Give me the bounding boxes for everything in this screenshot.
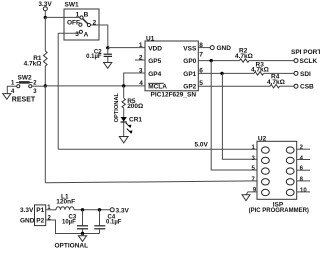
node 3.3V out terminal [110,208,114,212]
node 3.3V terminal [43,7,47,11]
svg-text:200Ω: 200Ω [127,103,143,110]
wire 3.3V stem [44,11,46,18]
wire pin6 down to U2 pin3 [222,73,257,159]
svg-text:120nF: 120nF [56,199,75,206]
svg-text:4.7kΩ: 4.7kΩ [235,53,253,60]
node dot C3 top [81,208,84,211]
capacitor C3 [62,210,88,234]
svg-text:P1: P1 [36,207,44,214]
svg-text:OPTIONAL: OPTIONAL [114,92,120,122]
svg-text:CSB: CSB [300,84,314,91]
svg-text:PIC12F629_SN: PIC12F629_SN [151,92,197,99]
switch SW2 [11,75,37,95]
wire P1 pin1 to L1 [46,209,56,211]
svg-text:SDI: SDI [300,71,311,78]
svg-text:5.0V: 5.0V [195,141,209,148]
connector P1/P2 [20,205,52,226]
svg-text:8: 8 [199,42,203,49]
wire U1 pin2 stub [135,59,145,61]
wire U2 pin7 line [45,181,257,183]
ground RESET [3,94,11,100]
svg-text:0.1µF: 0.1µF [86,54,102,60]
svg-text:SW1: SW1 [65,2,79,9]
svg-text:P2: P2 [36,217,44,224]
svg-text:VSS: VSS [183,45,197,52]
wire U1 pin5 to CSB [198,85,270,87]
svg-text:SPI PORT: SPI PORT [291,49,320,56]
svg-text:1: 1 [139,42,143,49]
svg-text:MCLA: MCLA [148,84,167,91]
node SCLK terminal [294,59,298,63]
resistor R4 [267,73,285,88]
header U2 [249,135,309,214]
svg-text:4: 4 [139,80,143,87]
wire x45 down to U2 pin7 line [44,86,46,183]
switch SW1 [64,2,99,40]
ground bottom rail [82,234,84,236]
wire U1 pin6 to SDI [198,72,254,74]
svg-text:RESET: RESET [12,97,36,104]
node SDI terminal [294,71,298,75]
svg-text:VDD: VDD [148,45,162,52]
svg-text:7: 7 [199,51,203,58]
node junction dot pin6 [220,72,223,75]
svg-text:3.3V: 3.3V [116,207,130,214]
svg-text:A: A [84,32,89,39]
node CSB terminal [294,84,298,88]
node GND terminal [210,46,214,50]
svg-text:GP1: GP1 [183,71,196,78]
resistor R2 [235,47,253,62]
svg-text:4.7kΩ: 4.7kΩ [24,60,42,67]
svg-text:10: 10 [300,188,307,194]
svg-text:(PIC PROGRAMMER): (PIC PROGRAMMER) [249,208,309,214]
node junction dot 3.3V [44,16,47,19]
svg-text:3: 3 [75,31,79,38]
svg-text:2: 2 [93,20,97,27]
wire SW2 to MCLR line [32,85,45,87]
wire L1 to 3.3V out [74,209,110,211]
capacitor C4 [94,210,121,234]
LED CR1 [121,117,143,137]
wire to U1 VDD pin1 [108,47,145,49]
wire SW1 pin3 to left [58,32,79,34]
ground U2 pin9 [242,195,250,201]
node dot bottom rail [81,232,84,235]
wire U2 right stubs [297,148,310,150]
wire vertical x58 down to 5.0V line [57,33,59,149]
svg-text:GP4: GP4 [148,71,161,78]
wire U1 pin8 to GND [198,47,210,49]
svg-text:SW2: SW2 [18,75,32,82]
wire U1 pin7 to SCLK [198,60,239,62]
svg-text:GP2: GP2 [183,84,196,91]
wire 3.3V to SW1 pin1 [45,16,80,18]
resistor R1 [24,17,47,85]
wire MCLR line to U1 pin4 [45,85,145,87]
svg-text:SCLK: SCLK [300,58,318,65]
node junction dot SW2 line [44,84,47,87]
node junction dot VDD [106,46,109,49]
resistor R5 chain [122,86,143,117]
wire U2 pin9 stub [246,192,257,195]
ground below CR1 [119,137,128,143]
svg-text:GND: GND [20,218,35,225]
wire U1 pin3 GP4 elbow down [124,73,145,86]
IC U1 [139,35,203,98]
wire pin7 down to U2 pin5 [211,61,257,170]
wire SW1 pin2 right and down [91,25,108,48]
svg-text:0.1µF: 0.1µF [106,219,122,225]
node dot C4 top [98,208,101,211]
capacitor C2 [86,48,112,63]
svg-text:OPTIONAL: OPTIONAL [55,242,89,249]
wire P2 pin2 elbow to bottom rail [46,220,100,234]
node junction dot pin7 [210,59,213,62]
svg-text:3.3V: 3.3V [20,207,34,214]
svg-text:GP0: GP0 [183,58,196,65]
svg-text:OFF: OFF [67,20,80,27]
svg-text:GP5: GP5 [148,58,161,65]
resistor R3 [251,61,269,75]
svg-text:GND: GND [217,45,232,52]
node junction dot GP4/MCLR [122,84,125,87]
inductor L1 [56,194,75,210]
wire SW2 to reset ground [7,86,16,93]
svg-text:1: 1 [76,12,80,19]
wire 5.0V line to U2 pin1 [58,148,257,150]
ground below C2 [104,63,112,69]
svg-text:10µF: 10µF [62,219,76,225]
svg-text:CR1: CR1 [129,117,142,124]
svg-text:B: B [84,12,89,19]
